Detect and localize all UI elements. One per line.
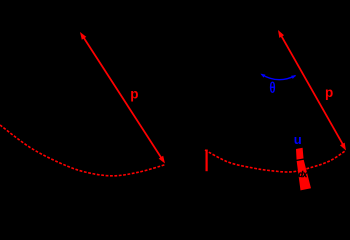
- mass element dx (red block): [296, 148, 311, 191]
- svg-text:p: p: [130, 87, 138, 102]
- svg-text:dx: dx: [298, 170, 308, 179]
- node G: black tick across mass element: [296, 159, 304, 160]
- wire: left swing arc: [0, 125, 166, 176]
- wire: left rod line p: [83, 37, 162, 159]
- wire: right swing arc: [205, 150, 345, 172]
- node D: right rod bottom arrowhead: [340, 143, 346, 151]
- node l: tick mark at arc start: [206, 150, 208, 172]
- node B: left rod bottom arrowhead: [159, 156, 165, 164]
- svg-text:u: u: [294, 132, 302, 147]
- wire: right rod line p: [281, 35, 343, 144]
- node E: blue left arrowhead: [260, 74, 265, 78]
- node C: right rod top arrowhead: [278, 30, 284, 38]
- svg-text:θ: θ: [269, 78, 275, 96]
- node A: left rod top arrowhead: [80, 32, 86, 40]
- wire: blue angle double-arrow arc: [262, 74, 296, 79]
- svg-text:p: p: [325, 85, 333, 100]
- node F: blue right arrowhead: [291, 75, 296, 79]
